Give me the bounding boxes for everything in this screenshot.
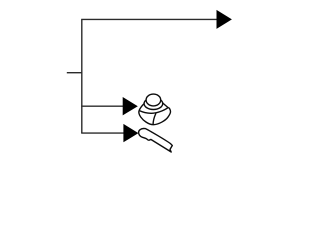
- nut clipart: seam line: [153, 113, 156, 124]
- nut clipart: back left edge: [139, 104, 144, 111]
- wire: vertical trunk: [81, 19, 83, 133]
- nut clipart: base outline stroke: [139, 108, 171, 125]
- wire: middle branch: [81, 105, 123, 107]
- arrowhead: bottom: [123, 124, 138, 142]
- chalk clipart: body: [139, 129, 173, 153]
- nut clipart: back right edge: [162, 103, 168, 108]
- arrowhead: top: [217, 10, 232, 29]
- wire: top branch: [81, 18, 217, 20]
- arrowhead: middle: [123, 97, 138, 115]
- wire: bottom branch: [81, 132, 124, 134]
- nut clipart: base cylinder fill: [139, 103, 171, 125]
- nut clipart: front top edge: [139, 108, 168, 114]
- wire: left stub tick: [67, 72, 83, 74]
- nut clipart: collar ring: [144, 98, 163, 110]
- nut clipart: dome ball: [146, 94, 161, 106]
